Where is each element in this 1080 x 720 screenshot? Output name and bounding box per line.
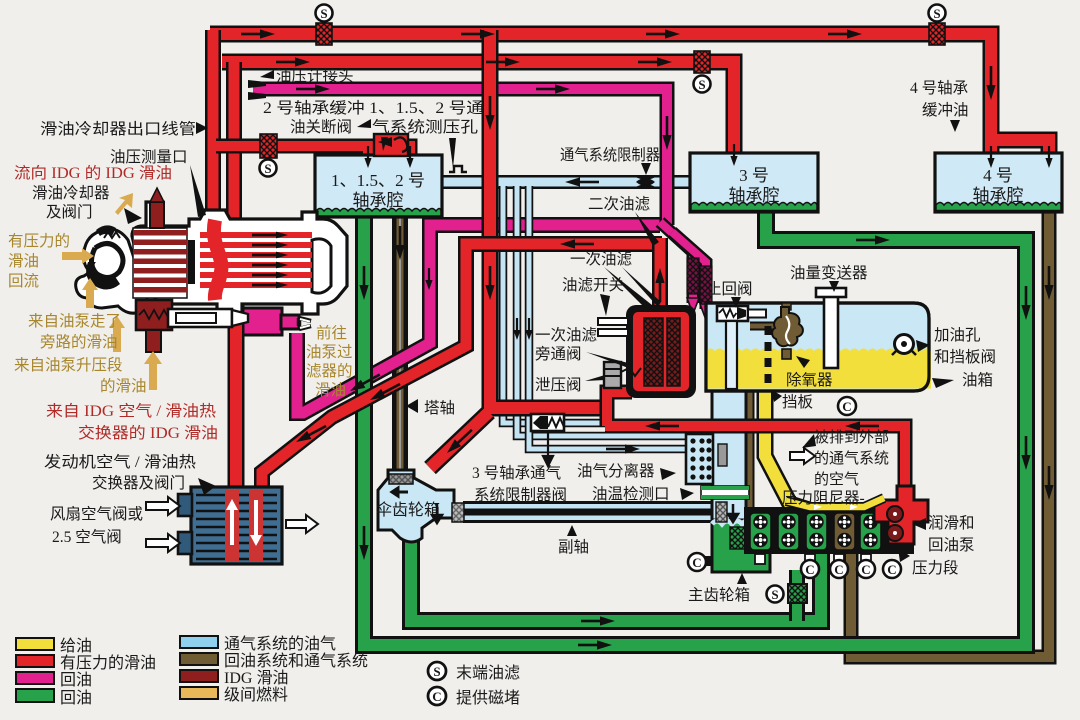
arrow: tower shaft down xyxy=(395,226,404,260)
svg-text:回油: 回油 xyxy=(60,689,92,707)
duct: light blue column from tank bottom to main gearbox xyxy=(712,388,746,524)
component: hatched blue block and arrow at lay-shaft right end xyxy=(716,502,738,522)
component: secondary oil filter hatched sections on magenta drops xyxy=(687,258,712,302)
svg-text:来自油泵升压段: 来自油泵升压段 xyxy=(14,356,123,374)
svg-text:润滑和: 润滑和 xyxy=(928,514,975,532)
svg-text:S: S xyxy=(264,161,271,176)
pipe: breather drop line 1 with restrictor valve run xyxy=(503,186,533,423)
svg-text:滑油: 滑油 xyxy=(8,252,39,270)
arrow: red diagonal into bevel gearbox xyxy=(444,426,475,456)
svg-text:止回阀: 止回阀 xyxy=(706,280,753,298)
component: No.4 bearing compartment box xyxy=(935,153,1062,212)
svg-text:回油系统和通气系统: 回油系统和通气系统 xyxy=(224,652,368,670)
pipe: riser from oil filter to R3 xyxy=(652,238,668,308)
svg-text:油关断阀: 油关断阀 xyxy=(290,118,352,136)
legend swatch: 回油 magenta xyxy=(16,672,54,684)
symbol: last-chance filter block on buffered-oil line with S below xyxy=(260,134,278,177)
svg-text:回流: 回流 xyxy=(8,272,39,290)
svg-text:滑油: 滑油 xyxy=(315,381,346,399)
svg-text:S: S xyxy=(933,6,940,21)
arrow: green y240 run flow right xyxy=(856,235,890,244)
symbol: white outlet arrow right of exchanger xyxy=(286,515,318,533)
label: 副轴 xyxy=(567,525,577,536)
svg-text:系统限制器阀: 系统限制器阀 xyxy=(474,486,567,504)
pipe: tower shaft (塔轴) xyxy=(392,215,408,478)
svg-text:油压计接头: 油压计接头 xyxy=(276,67,354,85)
pipe: brown feed to deaerator xyxy=(750,322,774,331)
svg-text:C: C xyxy=(861,562,870,577)
svg-text:3 号轴承通气: 3 号轴承通气 xyxy=(472,464,561,482)
pipe: twin vertical supply risers to oil cooler xyxy=(213,30,234,228)
LEGEND xyxy=(16,635,520,707)
component: IDG oil outlet stub on cooler top (dark red) with up arrow xyxy=(150,188,164,228)
svg-text:S: S xyxy=(771,587,778,602)
svg-text:S: S xyxy=(698,77,705,92)
node: magenta drop tips into tank xyxy=(687,298,699,314)
arrow: bypass oil tan up arrow 2 xyxy=(109,316,125,352)
arrow: magenta diagonal down-left xyxy=(348,370,382,395)
legend: C 提供磁堵 xyxy=(428,687,446,705)
component: cooler bottom maroon valve block with zigzag xyxy=(136,300,173,352)
svg-text:副轴: 副轴 xyxy=(558,538,589,556)
svg-text:C: C xyxy=(834,562,843,577)
component: oil tank (油箱) with blue air space and yellow oil xyxy=(706,303,931,391)
arrow: green H2 flow right xyxy=(578,640,612,649)
svg-text:回油泵: 回油泵 xyxy=(928,536,975,554)
svg-text:轴承腔: 轴承腔 xyxy=(973,186,1024,205)
svg-text:油泵过: 油泵过 xyxy=(306,343,353,361)
arrow: bypass oil tan up arrow xyxy=(82,278,98,308)
pipe: breather line from No.1/1.5/2 compartment right to No.3 compartment xyxy=(442,175,690,189)
pipe: magenta drop pair into oil filter / tank inlet xyxy=(660,222,706,309)
component: chip filter green hatched block on riser xyxy=(788,584,807,603)
component: oil-air separator (油气分离器) hatched block xyxy=(686,434,727,484)
svg-text:发动机空气 / 滑油热: 发动机空气 / 滑油热 xyxy=(44,453,197,471)
svg-text:滑油冷却器出口线管: 滑油冷却器出口线管 xyxy=(40,120,196,138)
svg-text:压力阻尼器-: 压力阻尼器- xyxy=(782,489,865,507)
svg-text:有压力的滑油: 有压力的滑油 xyxy=(60,654,156,672)
svg-text:的空气: 的空气 xyxy=(814,471,859,488)
svg-text:油箱: 油箱 xyxy=(962,371,993,389)
svg-text:4 号轴承: 4 号轴承 xyxy=(910,79,968,97)
svg-text:提供磁堵: 提供磁堵 xyxy=(456,689,520,707)
svg-text:S: S xyxy=(433,664,440,679)
component: servo spline shaft (white cylinders) under cooler xyxy=(168,309,248,327)
svg-text:挡板: 挡板 xyxy=(782,393,813,411)
symbol: last-chance filter block on R1 at top left with S xyxy=(316,5,333,46)
svg-text:油压测量口: 油压测量口 xyxy=(110,148,188,166)
svg-text:1、1.5、2 号: 1、1.5、2 号 xyxy=(331,171,425,190)
arrow: R1 drop down at right xyxy=(986,66,995,100)
arrow: R2 flow right xyxy=(276,57,310,66)
arrow: green V1 down xyxy=(359,266,368,300)
arrow: R-main down xyxy=(485,96,494,130)
pipe: scavenge return (magenta) pressure-gauge line M1 across top xyxy=(253,89,667,225)
arrow: R3 flow left xyxy=(560,239,594,248)
svg-text:风扇空气阀或: 风扇空气阀或 xyxy=(50,505,143,523)
pipe: breather drop line 3 to oil-air separator xyxy=(529,186,692,449)
symbol: last-chance filter block on R2 right with S below xyxy=(694,51,711,93)
svg-text:被排到外部: 被排到外部 xyxy=(814,429,889,446)
svg-text:旁路的滑油: 旁路的滑油 xyxy=(40,333,118,351)
pipe: pressurized oil supply R2 (second run) feeding No.3 bearing compartment xyxy=(222,62,734,156)
component: oil filter assembly (一次油滤) black housing xyxy=(626,305,696,398)
arrow: pressurized oil return tan right arrow xyxy=(62,248,94,264)
LABELS (text) xyxy=(8,67,996,604)
svg-text:油量变送器: 油量变送器 xyxy=(790,264,868,282)
pipe: pressure damper supply (yellow) from tank bottom to pump row xyxy=(765,388,884,511)
svg-text:通气系统限制器: 通气系统限制器 xyxy=(560,146,660,164)
component: white takeoff stubs below pump row xyxy=(755,554,871,564)
pipe: restrictor valve outlet run to separator xyxy=(560,419,692,428)
legend swatch: 给油 yellow xyxy=(16,638,54,650)
component: lube and scavenge pump red block (润滑和回油泵) xyxy=(874,486,928,544)
svg-text:缓冲油: 缓冲油 xyxy=(922,101,969,119)
component: deaerator (除氧器) brown swirl in tank xyxy=(772,303,803,359)
svg-text:C: C xyxy=(432,689,441,704)
arrow: blue breather flow left xyxy=(565,177,599,186)
component: pump row (压力段) black bar with gear pumps xyxy=(744,507,914,554)
svg-text:交换器及阀门: 交换器及阀门 xyxy=(92,474,185,492)
symbol: white inlet arrow (fan air) upper xyxy=(146,497,180,515)
svg-text:二次油滤: 二次油滤 xyxy=(588,195,650,213)
pipe: scavenge/vent return from No.4 bearing compartment down right side and along bottom to pump row xyxy=(851,210,1049,657)
legend swatch: 回油系统和通气系统 brown xyxy=(180,653,218,665)
legend swatch: 回油 green xyxy=(16,689,54,702)
svg-text:一次油滤: 一次油滤 xyxy=(570,250,632,268)
arrow: M1 flow right xyxy=(296,84,330,93)
svg-text:3 号: 3 号 xyxy=(739,166,769,185)
svg-text:C: C xyxy=(887,562,896,577)
component: pressure gauge connectors on magenta line (油压计接头) xyxy=(248,80,266,100)
svg-text:C: C xyxy=(805,562,814,577)
svg-text:有压力的: 有压力的 xyxy=(8,232,70,250)
component: oil temperature probe port (油温检测口) green stub xyxy=(701,486,749,499)
svg-text:主齿轮箱: 主齿轮箱 xyxy=(688,586,750,604)
arrow: red diagonal to exchanger down-left xyxy=(368,380,402,404)
legend: S 末端油滤 xyxy=(428,662,446,680)
svg-text:2.5 空气阀: 2.5 空气阀 xyxy=(52,528,122,546)
arrow: blue drop lines down xyxy=(513,318,520,340)
component: pressure port stub on No.1/1.5/2 box (气系统测压孔) xyxy=(449,166,467,172)
svg-text:IDG 滑油: IDG 滑油 xyxy=(224,669,288,687)
pipe: filter return R3 with diagonal to engine heat exchanger xyxy=(262,244,662,490)
component: oil cooler assembly body xyxy=(132,202,347,315)
svg-text:前往: 前往 xyxy=(316,324,347,342)
svg-text:回油: 回油 xyxy=(60,671,92,689)
label: 塔轴 xyxy=(406,399,418,413)
wire: green scavenge line from No.1/1.5/2 bearing compartment down, bottom run right, up to level of tank, left to No.3 compartment xyxy=(364,206,1026,645)
component: oil cooler left pump scroll xyxy=(76,225,148,313)
component: relief valve (泄压阀) grey cylinder xyxy=(604,362,641,388)
svg-text:气系统测压孔: 气系统测压孔 xyxy=(372,118,479,136)
tan flow arrows at left xyxy=(62,193,162,390)
svg-text:2 号轴承缓冲 1、1.5、2 号通: 2 号轴承缓冲 1、1.5、2 号通 xyxy=(263,99,485,117)
arrow: drop into No.3 box xyxy=(730,144,737,166)
svg-text:滑油冷却器: 滑油冷却器 xyxy=(32,184,110,202)
arrow: boost stage oil tan up arrow xyxy=(144,351,162,390)
svg-text:流向 IDG 的 IDG 滑油: 流向 IDG 的 IDG 滑油 xyxy=(14,164,172,182)
pipe: yellow damper weave over pump row xyxy=(786,498,884,510)
pipe: lay shaft (副轴) xyxy=(463,501,718,523)
pipe: filter left arm, down-leg and R5 run to lube/scavenge pumps xyxy=(605,392,905,500)
svg-text:交换器的 IDG 滑油: 交换器的 IDG 滑油 xyxy=(78,424,218,442)
component: No.1/1.5/2 bearing compartment box xyxy=(315,155,442,217)
component: engine air/oil heat exchanger (dark blue block) xyxy=(178,487,282,564)
component: oil cooler IDG (dark red) stripe section xyxy=(133,228,187,298)
ARROWS on pipes xyxy=(241,29,1054,649)
component: shut-off valve body on buffered oil line (缓冲油关断阀) xyxy=(374,134,408,156)
svg-text:及阀门: 及阀门 xyxy=(46,203,93,221)
arrow: green H1 flow right xyxy=(581,616,615,625)
legend swatch: 级间燃料 tan xyxy=(180,687,218,699)
svg-text:泄压阀: 泄压阀 xyxy=(535,376,582,394)
svg-text:级间燃料: 级间燃料 xyxy=(224,686,288,704)
pipe: breather drop line 2 to oil-air separator xyxy=(517,186,692,436)
svg-text:除氧器: 除氧器 xyxy=(786,371,833,389)
component: oil cooler bright red stripe section with flow arrows xyxy=(188,232,312,289)
arrow: drops into No.4 box xyxy=(987,146,994,168)
svg-text:轴承腔: 轴承腔 xyxy=(729,186,780,205)
component: breather system restrictor lens (通气系统限制器) on blue line xyxy=(636,176,655,188)
svg-text:滤器的: 滤器的 xyxy=(306,362,353,380)
pipe: thin brown vent line from oil tank down then right to pump row xyxy=(750,330,851,515)
symbol: white inlet arrow (fan air) lower xyxy=(146,534,180,552)
arrow: R1 flow right xyxy=(241,29,275,38)
legend swatch: 有压力的滑油 red xyxy=(16,655,54,667)
svg-text:塔轴: 塔轴 xyxy=(424,399,455,417)
pipe: buffered oil take-off to No.1/1.5/2 compartment with shut-off valve xyxy=(216,146,410,160)
svg-text:油气分离器: 油气分离器 xyxy=(577,462,655,480)
svg-text:加油孔: 加油孔 xyxy=(934,326,981,344)
component: filter inlet stubs (一次油滤 white ports) xyxy=(598,318,628,336)
component: check valve (止回阀) at tank top left xyxy=(717,306,766,389)
component: No.3 bearing compartment box xyxy=(690,153,818,212)
svg-text:油温检测口: 油温检测口 xyxy=(592,485,670,503)
arrow: R5 flow left xyxy=(645,421,679,430)
svg-text:和挡板阀: 和挡板阀 xyxy=(934,348,996,366)
node: baffle (挡板) dashed line in tank xyxy=(765,326,772,388)
svg-text:来自油泵走了: 来自油泵走了 xyxy=(28,312,121,330)
pipe: red S-curve inlet through cooler top xyxy=(214,220,222,300)
wire: green line from bevel gearbox down and right to main gearbox risers xyxy=(411,536,821,621)
arrow: brown No.4 drop down xyxy=(1044,266,1053,300)
component: oil quantity transmitter (油量变送器) white tube xyxy=(816,288,846,368)
svg-text:的通气系统: 的通气系统 xyxy=(814,450,889,467)
svg-text:4 号: 4 号 xyxy=(983,166,1013,185)
pipe: red vertical from oil cooler down to engine heat exchanger xyxy=(228,298,245,490)
svg-text:通气系统的油气: 通气系统的油气 xyxy=(224,635,336,653)
arrow: drops into No.1/1.5/2 box xyxy=(364,146,371,168)
svg-text:伞齿轮箱: 伞齿轮箱 xyxy=(376,501,440,519)
svg-text:C: C xyxy=(842,399,851,414)
svg-text:一次油滤: 一次油滤 xyxy=(535,326,597,344)
pipe: pressurized oil supply R1 (top run) feeding No.4 bearing compartment xyxy=(210,34,1049,156)
arrow: blue separator line flow right xyxy=(606,444,640,453)
svg-text:C: C xyxy=(692,555,701,570)
arrow: M1 drop down xyxy=(662,116,671,150)
svg-text:压力段: 压力段 xyxy=(912,559,959,577)
component: bevel gearbox (伞齿轮箱) xyxy=(376,470,464,542)
label: 主齿轮箱 xyxy=(737,573,747,584)
component: main gearbox (主齿轮箱) green block xyxy=(703,520,770,572)
symbol: S with chip filter near main gearbox xyxy=(767,586,784,603)
component: oil fill port and flapper valve symbol (加油孔和挡板阀) xyxy=(892,335,916,356)
component: servo block (magenta) below oil cooler xyxy=(236,308,299,335)
arrow: IDG oil tan diagonal arrow xyxy=(115,193,133,215)
legend swatch: IDG 滑油 dark red xyxy=(180,670,218,682)
pipe: magenta return M2 to servo/pump with diagonal to servo block xyxy=(297,225,660,413)
svg-text:来自 IDG 空气 / 滑油热: 来自 IDG 空气 / 滑油热 xyxy=(46,402,217,420)
svg-text:末端油滤: 末端油滤 xyxy=(456,664,520,682)
arrow: green right vertical down xyxy=(1021,286,1030,320)
wire: green riser from main gearbox through chip-filter block to bottom green run xyxy=(789,570,805,621)
svg-text:的滑油: 的滑油 xyxy=(100,377,147,395)
svg-text:旁通阀: 旁通阀 xyxy=(535,345,582,363)
symbol: C magnetic plug marks xyxy=(688,397,901,578)
symbol: last-chance filter block on R1 at top right with S xyxy=(929,5,946,46)
component: breather restrictor valve on blue line (3号轴承通气系统限制器阀) xyxy=(531,414,564,466)
svg-text:S: S xyxy=(320,6,327,21)
arrow: riser to R3 up xyxy=(655,268,664,302)
legend swatch: 通气系统的油气 light blue xyxy=(180,636,218,648)
svg-text:给油: 给油 xyxy=(60,637,92,655)
pipe: main red supply drop through centre, R4 to filter, branch to bevel gearbox xyxy=(430,30,604,468)
svg-text:油滤开关: 油滤开关 xyxy=(562,276,624,294)
component: white fork symbol at servo block outlet xyxy=(299,318,311,329)
svg-text:轴承腔: 轴承腔 xyxy=(353,191,404,210)
arrow: magenta servo vertical down xyxy=(425,268,432,290)
